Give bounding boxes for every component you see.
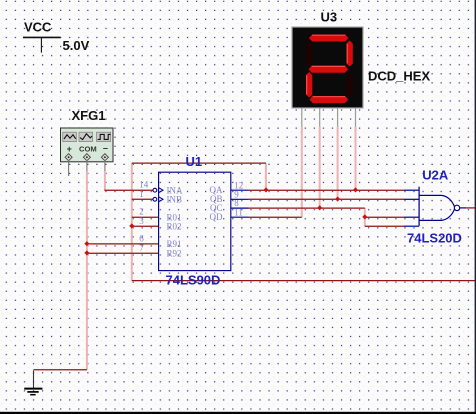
wire display pin4 down to QA row: [355, 127, 357, 191]
segment e lit: [306, 72, 312, 98]
wire vertical XFG1 minus to INA: [104, 171, 106, 190]
window border bottom: [0, 412, 476, 414]
segment g lit: [309, 66, 349, 73]
NAND gate U2A body: [419, 187, 466, 226]
U1 pin numbers right: [234, 180, 243, 217]
seven segment display U3: [292, 27, 363, 108]
wire vertical XFG1 COM down to ground run: [86, 171, 88, 370]
svg-text:R92: R92: [167, 248, 182, 258]
svg-text:74LS20D: 74LS20D: [407, 230, 462, 245]
segment b lit: [347, 41, 353, 67]
wire horizontal R01: [132, 216, 159, 218]
wire vertical left feedback: [131, 163, 133, 281]
XFG1 terminal +: [65, 154, 72, 161]
wire horizontal INB: [132, 198, 153, 200]
wire horizontal R92: [87, 252, 159, 254]
svg-text:3: 3: [139, 216, 144, 226]
svg-text:XFG1: XFG1: [72, 108, 106, 123]
wire QD to display pin1: [249, 216, 302, 218]
junction node QA feedback: [263, 187, 268, 192]
U1 pin numbers left: [139, 180, 149, 253]
svg-text:U3: U3: [321, 10, 338, 25]
svg-text:DCD_HEX: DCD_HEX: [368, 69, 430, 84]
wire horizontal R91: [87, 243, 159, 245]
segment highlights: [312, 34, 345, 36]
wire horizontal R02: [132, 225, 159, 227]
svg-text:QD: QD: [210, 212, 223, 222]
wire vertical feedback down to QA node: [265, 163, 267, 190]
svg-text:R02: R02: [167, 221, 182, 231]
svg-text:INB: INB: [167, 194, 183, 204]
junction node QB display: [335, 196, 340, 201]
svg-text:1: 1: [139, 189, 144, 199]
wire display pin1 down to QD row: [301, 127, 303, 218]
junction node QC display: [317, 205, 322, 210]
U1 pin names left: [167, 185, 183, 258]
U3 pin stubs gray: [302, 108, 356, 127]
wire QC: [249, 207, 365, 209]
svg-text:−: −: [103, 144, 108, 154]
U1 INA clock bubble: [153, 188, 157, 192]
segment a lit: [309, 35, 349, 42]
svg-text:7: 7: [139, 243, 144, 253]
junction node QA display: [353, 187, 358, 192]
XFG1 terminal minus: [101, 154, 108, 161]
function generator XFG1: [61, 128, 114, 162]
segment f dim: [306, 41, 312, 67]
wire bottom run under U1: [132, 280, 476, 282]
junction node R91: [84, 241, 89, 246]
svg-text:U2A: U2A: [422, 167, 449, 182]
wire to gate input4: [365, 225, 404, 227]
junction node gate in3: [362, 214, 367, 219]
IC U1 74LS90D body: [159, 172, 231, 270]
svg-text:VCC: VCC: [24, 19, 52, 34]
wire feedback over top of U1: [132, 162, 266, 164]
svg-text:+: +: [67, 144, 72, 154]
junction node R02: [129, 223, 134, 228]
wire ground horizontal: [34, 369, 87, 371]
U1 pin names right: [210, 185, 223, 222]
XFG1 COM lead stub: [86, 160, 88, 171]
VCC power symbol: [23, 37, 61, 52]
wire gate output: [466, 207, 476, 209]
segment c dim: [347, 72, 353, 98]
svg-text:U1: U1: [186, 154, 203, 169]
svg-text:5.0V: 5.0V: [63, 38, 90, 53]
U1 INB clock bubble: [153, 197, 157, 201]
U1 output stubs blue: [231, 190, 249, 217]
junction node R92: [84, 250, 89, 255]
svg-text:74LS90D: 74LS90D: [166, 273, 221, 288]
wire to gate input3: [365, 216, 404, 218]
wire QB to gate input2: [249, 198, 405, 200]
wire display pin3 down to QB row: [337, 127, 339, 200]
segment d lit: [310, 96, 349, 103]
ground symbol: [24, 370, 42, 394]
svg-text:COM: COM: [79, 145, 97, 154]
XFG1 plus lead stub: [68, 160, 70, 176]
wire display pin2 down to QC row: [319, 127, 321, 209]
window border right: [475, 0, 476, 414]
wire QA to gate input1: [249, 189, 405, 191]
XFG1 terminal COM: [83, 154, 90, 161]
NAND gate U2A input stubs: [404, 190, 419, 226]
XFG1 minus lead stub: [104, 160, 106, 171]
wire QC bend vertical: [364, 208, 366, 226]
wire horizontal INA: [104, 189, 153, 191]
svg-text:11: 11: [234, 207, 243, 217]
